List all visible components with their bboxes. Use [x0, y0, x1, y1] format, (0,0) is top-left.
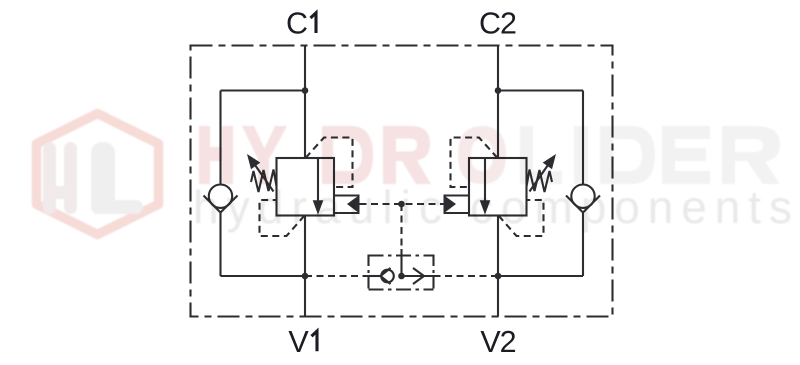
check valve CV2 seat	[566, 196, 600, 213]
junction node pilot cross	[398, 201, 405, 208]
pilot line between valves	[360, 203, 444, 205]
pilot line down to shuttle	[400, 204, 402, 250]
pilot triangle valve V2	[444, 195, 457, 214]
pilot line shuttle to bottom right	[434, 275, 499, 277]
watermark layer	[37, 114, 796, 235]
spring arrow shaft V1	[255, 165, 274, 192]
junction node C1 branch	[302, 87, 309, 94]
valve body enclosure (outer dash-dot boundary)	[191, 46, 613, 317]
watermark hexagon logo	[37, 114, 159, 235]
svg-text:C2: C2	[479, 7, 516, 41]
shuttle ball	[381, 270, 394, 283]
junction node C2 branch	[495, 87, 502, 94]
shuttle inlet line left	[369, 275, 381, 277]
pilot line bottom left to shuttle	[305, 275, 369, 277]
pilot loop upper left of valve V2	[451, 138, 498, 188]
spring valve V2	[527, 170, 553, 193]
wire left branch below check	[219, 213, 221, 277]
wire left branch horizontal	[221, 89, 306, 91]
svg-text:V: V	[288, 325, 309, 359]
svg-text:V2: V2	[480, 325, 515, 359]
pilot loop lower left of valve V1	[260, 200, 305, 236]
wire left branch vertical	[219, 91, 221, 185]
shuttle outlet line right	[402, 275, 434, 277]
watermark logo letter L	[91, 142, 143, 214]
valve V2 internal flow line	[484, 158, 486, 201]
shuttle valve enclosure	[369, 255, 434, 291]
wire right branch vertical	[582, 91, 584, 185]
arrow valve V1 flow	[313, 200, 324, 215]
watermark text HYDRO	[199, 126, 431, 184]
wire C1 rail lower	[304, 216, 306, 317]
shuttle arrow right	[413, 268, 424, 284]
svg-text:hydraulic: hydraulic	[193, 181, 445, 233]
shuttle seat	[381, 268, 391, 284]
valve V1 internal flow line	[317, 158, 319, 201]
wire C1 rail upper	[304, 46, 306, 159]
spring arrowhead V2	[543, 154, 556, 169]
junction node V2 branch	[495, 273, 502, 280]
check valve CV2 circle	[571, 185, 594, 208]
wire right branch below check	[582, 213, 584, 277]
check valve CV1 seat	[204, 196, 238, 213]
wire C2 rail lower	[497, 216, 499, 317]
pilot triangle valve V1	[347, 195, 360, 214]
spring arrowhead V1	[247, 154, 260, 169]
watermark text LIDER	[520, 126, 780, 184]
junction node V1 branch	[302, 273, 309, 280]
spring valve V1	[251, 170, 277, 193]
check valve CV1 circle	[209, 185, 232, 208]
wire bottom left horizontal	[221, 275, 306, 277]
counterbalance valve body V2 (right square)	[469, 158, 527, 216]
wire right branch horizontal	[498, 89, 583, 91]
watermark text O of HYDROLIDER	[458, 126, 506, 184]
pilot loop upper right of valve V1	[306, 138, 353, 188]
svg-text:C: C	[286, 7, 307, 41]
wire bottom right horizontal	[498, 275, 583, 277]
watermark logo letter H	[43, 142, 77, 214]
shuttle output line up	[400, 249, 402, 276]
spring arrow shaft V2	[530, 165, 549, 192]
counterbalance valve body V1 (left square)	[277, 158, 335, 216]
arrow valve V2 flow	[480, 200, 491, 215]
junction node shuttle center	[398, 273, 405, 280]
valve V2 pilot tab lines	[444, 196, 470, 214]
pilot loop lower right of valve V2	[499, 200, 544, 236]
valve V1 pilot tab lines	[334, 196, 360, 214]
wire C2 rail upper	[497, 46, 499, 159]
